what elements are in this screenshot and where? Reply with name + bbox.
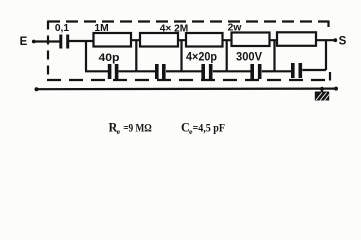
wire C5 to right branch xyxy=(302,69,326,71)
resistor R2 xyxy=(140,33,178,47)
label 4x2M for R2-R5 xyxy=(160,24,189,35)
shield box right edge tick bottom xyxy=(329,72,331,81)
wire top rail R1..S xyxy=(130,39,335,41)
ground junction dot xyxy=(320,87,324,91)
wire E to capacitor C0 xyxy=(34,40,60,42)
svg-text:=9 MΩ: =9 MΩ xyxy=(123,122,152,134)
capacitor C0 value 0,1 xyxy=(55,23,70,34)
svg-text:40p: 40p xyxy=(99,52,120,64)
node D vertical wire xyxy=(226,40,228,71)
shield box dashed top edge xyxy=(48,20,329,22)
wire node B to C2 xyxy=(136,70,155,72)
resistor R3 xyxy=(186,33,223,47)
terminal E label xyxy=(20,36,28,48)
svg-text:e: e xyxy=(117,127,121,136)
ground rail left end dot xyxy=(35,87,39,91)
shield box right edge tick top xyxy=(327,21,329,28)
svg-text:4× 2M: 4× 2M xyxy=(160,24,189,35)
ground rail wire xyxy=(36,87,336,90)
terminal S label xyxy=(339,36,347,48)
shield box dashed left edge xyxy=(47,21,49,80)
resistor R4 xyxy=(232,33,270,47)
capacitor C4 plates xyxy=(250,64,261,79)
svg-text:4×20p: 4×20p xyxy=(186,50,217,64)
wire C3 to node D xyxy=(213,70,227,72)
capacitor C4 voltage label 300V xyxy=(236,50,262,64)
ground symbol stub xyxy=(321,89,323,92)
ground rail right end dot xyxy=(334,87,338,91)
terminal S dot xyxy=(333,38,337,42)
right branch vertical wire xyxy=(325,40,327,70)
formula Re = 9 Mohm xyxy=(109,120,152,136)
wire node D to C4 xyxy=(227,70,251,72)
resistor R1 value 1M xyxy=(94,23,108,34)
capacitor C3 plates xyxy=(201,64,212,79)
capacitor C2 plates xyxy=(155,64,166,79)
capacitor C1 value 40p xyxy=(99,52,120,64)
capacitor C1 plates xyxy=(108,64,119,79)
wire C4 to node E2 xyxy=(262,70,275,72)
resistor R1 xyxy=(94,33,132,47)
node E2 vertical wire xyxy=(273,40,275,71)
wire C2 to node C xyxy=(166,70,182,72)
svg-text:=4,5 pF: =4,5 pF xyxy=(193,122,226,134)
wire C1 to node B xyxy=(119,70,137,72)
wire node A to C1 xyxy=(85,70,109,72)
node A vertical wire xyxy=(85,41,87,71)
node C vertical wire xyxy=(180,40,182,71)
wire C0 to R1 xyxy=(69,40,94,42)
formula Ce = 4,5 pF xyxy=(181,120,225,136)
svg-text:300V: 300V xyxy=(236,50,262,64)
node B vertical wire xyxy=(135,40,137,71)
capacitor C5 plates xyxy=(291,63,302,78)
ground symbol hatched block xyxy=(315,92,329,101)
svg-text:0,1: 0,1 xyxy=(55,23,70,34)
resistor R4 power label 2w xyxy=(228,23,243,34)
capacitor C0 plates xyxy=(59,35,69,49)
svg-text:E: E xyxy=(20,36,28,48)
terminal E dot xyxy=(32,40,36,44)
svg-text:S: S xyxy=(339,36,347,48)
shield box dashed bottom edge xyxy=(47,79,331,81)
wire node C to C3 xyxy=(182,70,202,72)
wire node E2 to C5 xyxy=(275,70,292,72)
resistor R5 xyxy=(277,32,316,46)
capacitor C3 value 4x20p xyxy=(186,50,217,64)
